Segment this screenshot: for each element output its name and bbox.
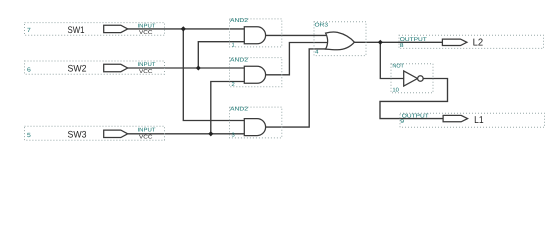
svg-text:INPUT: INPUT bbox=[138, 62, 157, 68]
selection box AND3 bbox=[230, 107, 282, 138]
svg-text:AND2: AND2 bbox=[230, 106, 248, 112]
svg-text:9: 9 bbox=[400, 119, 404, 125]
junction node SW2 bbox=[196, 66, 201, 71]
wire AND2 output to OR3 input2 bbox=[266, 43, 330, 75]
not-gate U10 NOT bbox=[404, 71, 418, 86]
output pin L2 symbol bbox=[442, 39, 467, 45]
selection box SW2 bbox=[25, 61, 165, 74]
svg-text:NOT: NOT bbox=[392, 63, 404, 69]
svg-text:INPUT: INPUT bbox=[138, 23, 157, 29]
svg-text:SW3: SW3 bbox=[68, 129, 87, 140]
or-gate U4 OR3 bbox=[326, 32, 355, 50]
selection box AND2 bbox=[230, 58, 282, 87]
svg-text:L1: L1 bbox=[474, 115, 484, 126]
junction node OR3 output bbox=[378, 40, 383, 45]
selection box SW3 bbox=[25, 126, 165, 140]
svg-text:AND2: AND2 bbox=[230, 18, 248, 24]
selection box AND1 bbox=[230, 19, 282, 47]
selection box L2 bbox=[399, 35, 544, 48]
selection box NOT bbox=[391, 64, 433, 93]
wire junction to NOT input bbox=[380, 42, 403, 78]
svg-text:INPUT: INPUT bbox=[138, 127, 157, 133]
svg-text:SW1: SW1 bbox=[68, 25, 85, 36]
wire SW3 vertical to AND2 input2 bbox=[211, 82, 245, 134]
wire AND3 output to OR3 input3 bbox=[266, 49, 329, 127]
svg-text:VCC: VCC bbox=[139, 69, 153, 75]
wire SW1 horizontal bbox=[128, 28, 245, 30]
wire OR3 output to L2 bbox=[355, 41, 443, 43]
wire SW1 vertical to AND3 input1 bbox=[183, 29, 244, 121]
input pin SW3 symbol bbox=[104, 130, 128, 137]
selection box OR3 bbox=[314, 22, 366, 56]
output pin L1 symbol bbox=[443, 115, 468, 121]
wire SW2 horizontal bbox=[128, 67, 245, 69]
svg-text:SW2: SW2 bbox=[68, 64, 87, 75]
svg-text:OUTPUT: OUTPUT bbox=[400, 37, 428, 43]
selection box L1 bbox=[400, 113, 545, 127]
wire NOT output zigzag to L1 bbox=[380, 79, 448, 119]
svg-text:OR3: OR3 bbox=[315, 23, 329, 29]
svg-text:2: 2 bbox=[232, 82, 235, 88]
svg-text:4: 4 bbox=[315, 50, 319, 56]
and-gate U3 AND2 bottom bbox=[244, 119, 265, 136]
junction node SW1 bbox=[181, 26, 186, 31]
svg-text:OUTPUT: OUTPUT bbox=[402, 114, 430, 120]
and-gate U1 AND2 top bbox=[244, 27, 265, 44]
selection box SW1 bbox=[25, 23, 165, 36]
wire SW2 vertical to AND1 input2 bbox=[198, 42, 244, 68]
input pin SW2 symbol bbox=[104, 64, 128, 71]
svg-text:VCC: VCC bbox=[139, 30, 153, 36]
svg-text:VCC: VCC bbox=[139, 134, 153, 140]
wire AND1 output to OR3 input1 bbox=[266, 34, 329, 36]
svg-text:AND2: AND2 bbox=[230, 58, 248, 64]
svg-text:10: 10 bbox=[392, 88, 399, 94]
and-gate U2 AND2 middle bbox=[244, 66, 265, 83]
junction node SW3 bbox=[208, 131, 213, 136]
input pin SW1 symbol bbox=[104, 25, 128, 32]
svg-text:1: 1 bbox=[232, 42, 235, 48]
svg-text:L2: L2 bbox=[473, 38, 484, 49]
svg-text:3: 3 bbox=[232, 133, 235, 139]
svg-text:8: 8 bbox=[400, 43, 404, 49]
wire SW3 horizontal bbox=[128, 133, 245, 135]
